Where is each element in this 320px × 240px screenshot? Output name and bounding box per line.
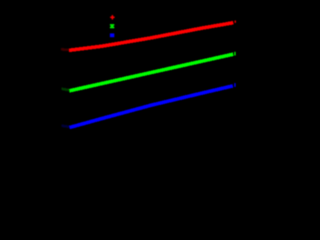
green series end tick [234, 52, 235, 56]
legend marker: green asterisk [110, 25, 114, 28]
blue series fade-in tail [62, 126, 70, 127]
red series line [69, 23, 233, 51]
blue series end tick [234, 83, 235, 87]
blue series line [70, 86, 233, 128]
legend marker: red plus [110, 15, 114, 19]
green series fade-in tail [62, 89, 70, 90]
red series end tick [235, 21, 236, 23]
red series fade-in tail [61, 48, 69, 51]
green series line [69, 54, 233, 91]
legend marker: blue filled square [110, 33, 114, 37]
